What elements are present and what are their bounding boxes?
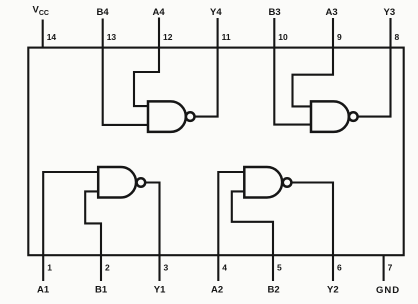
svg-text:B2: B2 [268, 285, 280, 296]
svg-text:12: 12 [163, 32, 173, 42]
wire A4 pin 12 to gate4 input A [134, 48, 159, 107]
svg-text:9: 9 [337, 32, 342, 42]
NAND gate 2 output bubble [283, 178, 292, 187]
pin 11 lead (Y4) [217, 18, 219, 48]
svg-text:Y4: Y4 [210, 7, 222, 18]
svg-text:10: 10 [278, 32, 288, 42]
wire A1 pin 1 to gate1 input A [43, 172, 98, 255]
svg-text:4: 4 [222, 263, 227, 273]
wire gate1 output to Y1 pin 3 [145, 183, 159, 256]
wire A3 pin 9 to gate3 input A [293, 48, 334, 107]
svg-text:13: 13 [107, 32, 117, 42]
wire B3 pin 10 to gate3 input B [274, 48, 311, 125]
wire A2 pin 4 to gate2 input A [218, 172, 244, 255]
svg-text:2: 2 [105, 263, 110, 273]
pin 4 lead (A2) [217, 255, 219, 281]
svg-text:11: 11 [222, 32, 231, 42]
svg-text:A2: A2 [211, 285, 223, 296]
pin 10 lead (B3) [273, 18, 275, 48]
svg-text:3: 3 [164, 263, 169, 273]
NAND gate 3 output bubble [349, 112, 358, 121]
pin 13 lead (B4) [102, 19, 104, 48]
svg-text:Y3: Y3 [384, 7, 396, 18]
wire gate2 output to Y2 pin 6 [291, 183, 333, 256]
NAND gate 3 body (top-right) [311, 101, 349, 131]
NAND gate 4 body (top-left) [148, 101, 186, 131]
NAND gate 2 body (bottom-right) [244, 167, 282, 198]
svg-text:5: 5 [277, 263, 282, 273]
pin 8 lead (Y3) [389, 18, 391, 48]
IC package outline [28, 48, 403, 256]
svg-text:1: 1 [47, 263, 52, 273]
svg-text:B4: B4 [97, 7, 110, 18]
svg-text:A3: A3 [326, 7, 338, 18]
pin 14 lead (VCC) [42, 20, 44, 48]
pin 3 lead (Y1) [158, 255, 160, 281]
svg-text:B3: B3 [269, 7, 281, 18]
svg-text:8: 8 [395, 32, 400, 42]
wire B2 pin 5 to gate2 input B [232, 191, 273, 255]
pin 9 lead (A3) [332, 18, 334, 48]
pin 5 lead (B2) [272, 255, 274, 281]
wire B4 pin 13 to gate4 input B [103, 48, 148, 125]
NAND gate 1 output bubble [137, 178, 146, 187]
svg-text:Y1: Y1 [154, 285, 166, 296]
svg-text:A1: A1 [37, 285, 50, 296]
svg-text:6: 6 [337, 263, 342, 273]
svg-text:A4: A4 [153, 7, 166, 18]
svg-text:B1: B1 [95, 285, 108, 296]
pin 12 lead (A4) [158, 18, 160, 48]
NAND gate 4 output bubble [186, 112, 195, 121]
wire B1 pin 2 to gate1 input B [85, 191, 101, 255]
svg-text:Y2: Y2 [327, 285, 339, 296]
NAND gate 1 body (bottom-left) [98, 167, 136, 198]
pin 7 lead (GND) [383, 255, 385, 281]
pin 1 lead (A1) [42, 255, 44, 281]
svg-text:GND: GND [376, 285, 400, 296]
wire gate3 output to Y3 pin 8 [358, 48, 391, 117]
pin 2 lead (B1) [100, 255, 102, 281]
pin 6 lead (Y2) [332, 255, 334, 281]
svg-text:14: 14 [47, 32, 57, 42]
wire gate4 output to Y4 pin 11 [195, 48, 218, 117]
svg-text:7: 7 [388, 263, 393, 273]
